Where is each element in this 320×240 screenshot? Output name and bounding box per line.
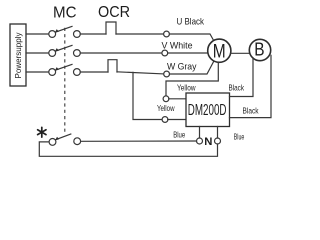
OCR heater element W [108,60,117,72]
svg-text:Black: Black [229,83,245,93]
wire phase S supply to MC [26,52,48,54]
svg-text:Blue: Blue [234,132,245,142]
brake B [249,39,270,61]
svg-text:OCR: OCR [98,4,130,21]
rectifier DM200D box [186,93,230,127]
wire phase R supply to MC [26,33,48,35]
wire yellow connector 2 to rectifier [168,119,186,121]
wire rectifier output 1 to brake [230,58,254,97]
power supply box [10,24,26,86]
svg-text:MC: MC [53,5,77,22]
svg-text:B: B [254,39,264,60]
svg-text:Yellow: Yellow [177,83,196,93]
wire W tap to yellow connector 2 [133,72,162,119]
connector yellow 2 [162,117,168,123]
wire N to release switch [81,140,197,142]
wire phase T supply to MC [26,71,48,73]
wire yellow connector 1 to rectifier [169,98,186,100]
svg-text:Blue: Blue [173,130,185,140]
wire V connector to motor [168,52,208,54]
connector yellow 1 [163,96,169,102]
connector W [164,71,170,77]
svg-text:V White: V White [162,41,193,52]
wire W OCR to connector [117,72,164,74]
svg-text:DM200D: DM200D [188,102,227,119]
asterisk note mark [38,127,46,137]
wire motor tap to yellow connector 1 [166,63,218,97]
terminal N left [197,138,203,144]
svg-text:U Black: U Black [177,16,205,27]
connector U [164,31,170,37]
contactor MC pole 3 [49,64,81,75]
wire rectifier to N terminal right [217,127,219,139]
connector V [162,50,168,56]
mechanical linkage dashed line [64,28,66,134]
svg-text:Yellow: Yellow [157,103,175,113]
wire W connector to motor [170,61,214,74]
wire V MC to connector [80,52,162,54]
motor M [208,39,231,62]
wire U MC to OCR [80,33,106,35]
svg-text:M: M [213,41,226,63]
wire rectifier to N terminal left [199,127,201,139]
svg-text:W Gray: W Gray [167,61,197,72]
wire rectifier output 2 to brake [230,55,272,117]
OCR heater element U [106,22,116,34]
wire U OCR to connector [116,33,164,35]
contactor MC pole 2 [49,45,81,56]
svg-text:N: N [204,136,212,148]
quick release switch [49,134,81,145]
svg-text:Black: Black [243,106,260,116]
wire W MC to OCR [80,71,108,73]
wire U connector to motor [169,34,213,41]
wire M to B [231,52,250,54]
terminal N right [215,138,221,144]
svg-text:Powersupply: Powersupply [14,32,23,79]
bottom return wire [39,142,217,156]
contactor MC pole 1 [49,26,81,37]
